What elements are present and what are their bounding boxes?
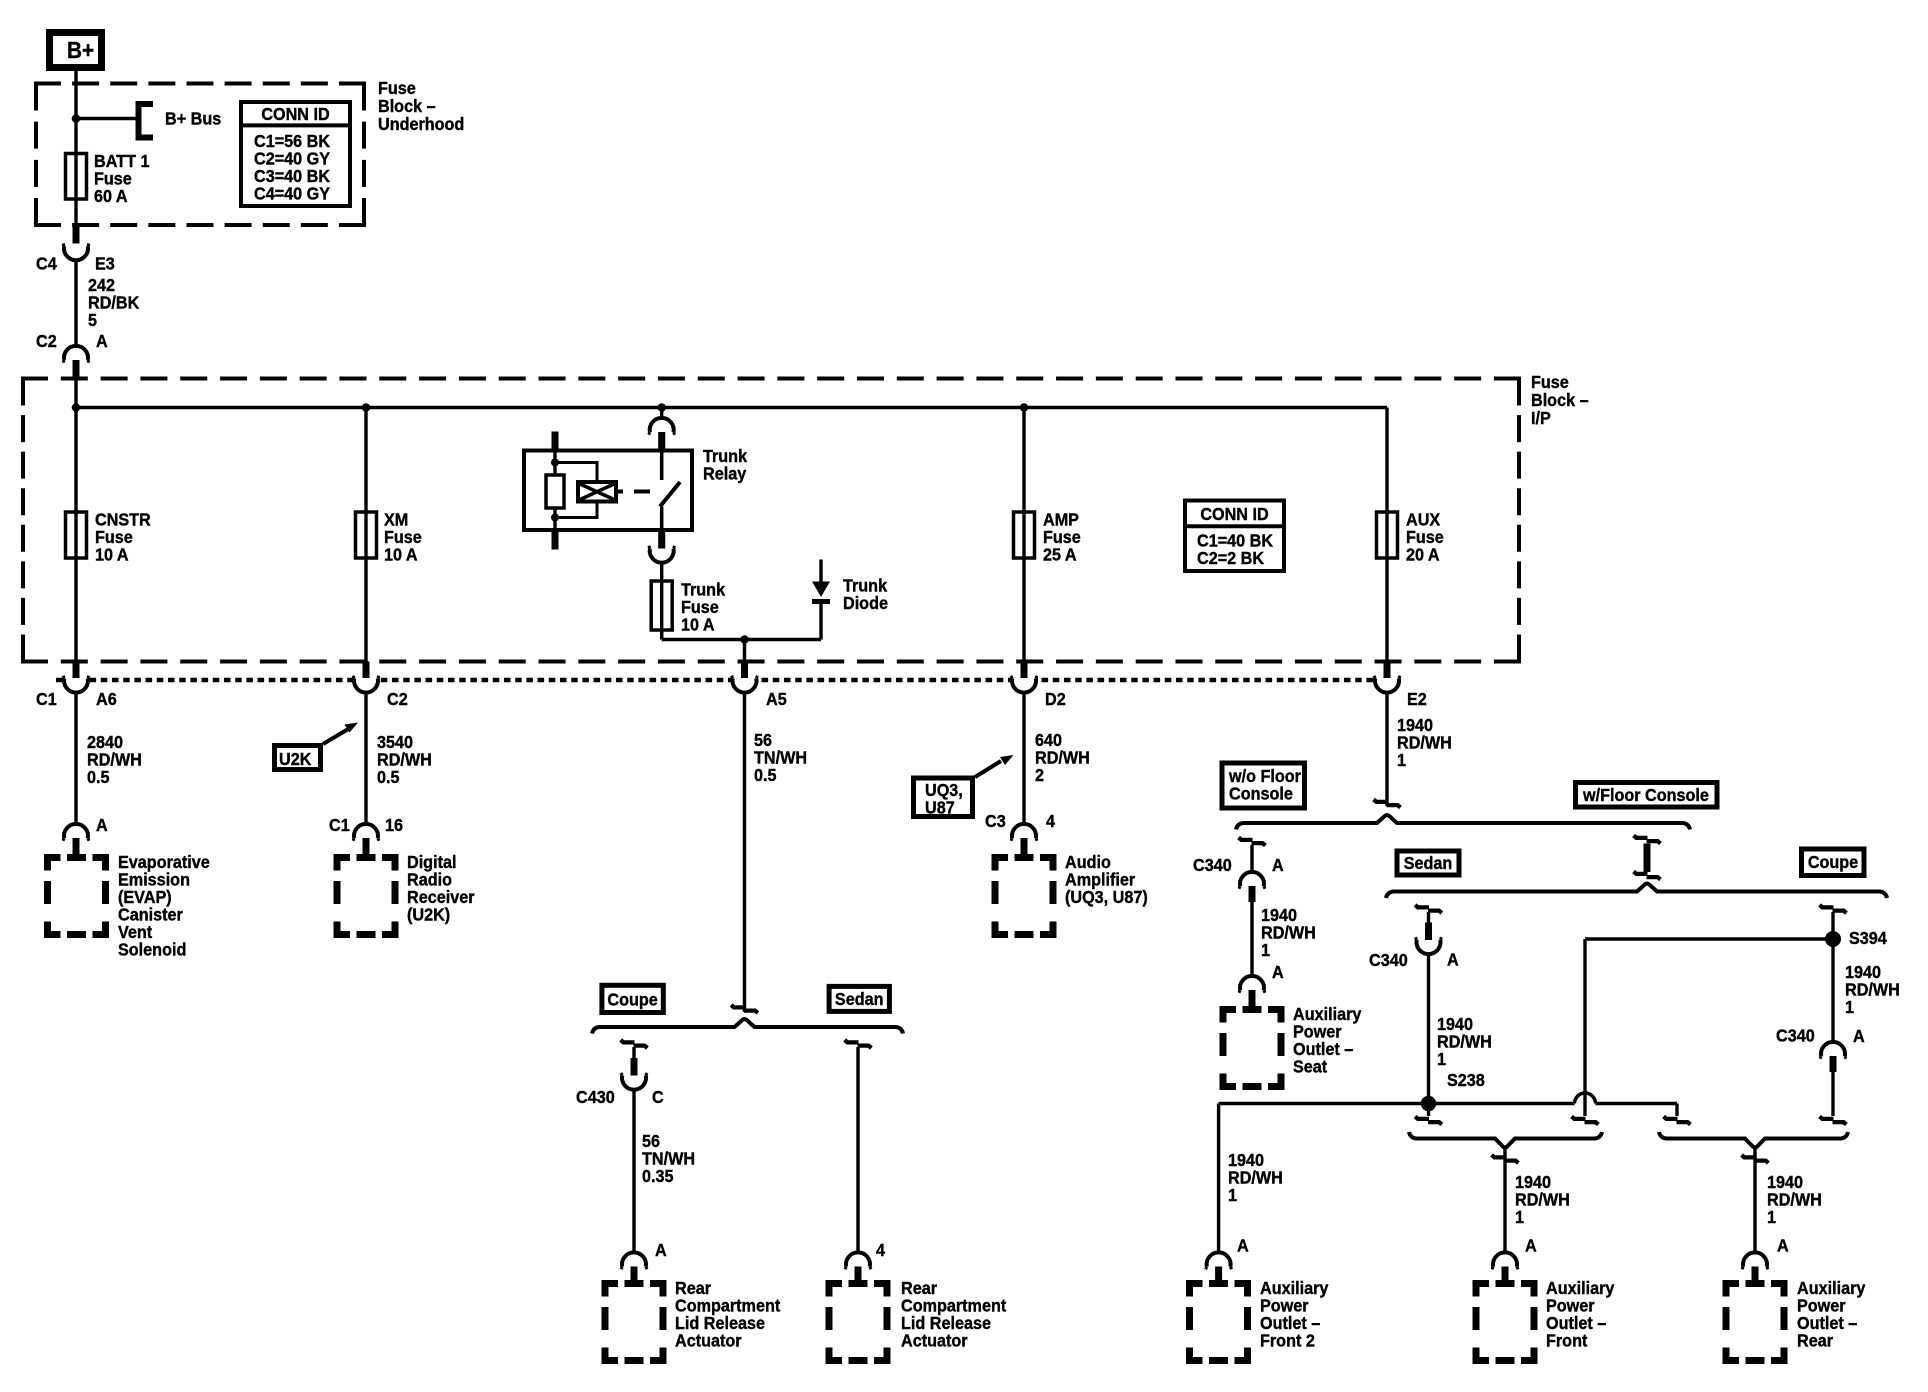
- wire 1940 RD/WH 1 (sedan): [1427, 954, 1430, 1104]
- B+ Bus terminal: [76, 117, 137, 120]
- svg-text:1: 1: [1437, 1049, 1446, 1069]
- svg-text:(U2K): (U2K): [407, 905, 450, 925]
- fuse AUX 20 A column: [1385, 408, 1388, 662]
- relay actuation dashed link: [616, 490, 623, 494]
- svg-text:D2: D2: [1045, 689, 1066, 709]
- wire 2840 RD/WH 0.5: [74, 693, 77, 825]
- svg-text:C340: C340: [1369, 950, 1408, 970]
- svg-text:C340: C340: [1193, 855, 1232, 875]
- wire trunk fuse to diode: [660, 630, 663, 640]
- connector A EVAP: [63, 828, 89, 844]
- coupe branch connector C430 C: [621, 1040, 648, 1048]
- E2 wire end tick: [1374, 800, 1401, 808]
- svg-text:A5: A5: [766, 689, 787, 709]
- svg-text:A: A: [655, 1240, 667, 1260]
- svg-text:C4: C4: [36, 254, 57, 274]
- svg-text:Fuse: Fuse: [1531, 372, 1569, 392]
- Coupe label box (floor console): [1802, 849, 1865, 876]
- svg-text:Diode: Diode: [843, 593, 888, 613]
- svg-text:Front: Front: [1546, 1331, 1588, 1351]
- relay output connector: [649, 543, 675, 559]
- svg-text:C4=40 GY: C4=40 GY: [254, 184, 331, 204]
- svg-text:Sedan: Sedan: [835, 989, 884, 1009]
- auxiliary power outlet seat box: [1223, 1010, 1281, 1087]
- svg-text:C3: C3: [985, 811, 1006, 831]
- svg-text:B+: B+: [67, 37, 94, 63]
- svg-text:Actuator: Actuator: [675, 1331, 742, 1351]
- svg-text:B+ Bus: B+ Bus: [165, 109, 221, 129]
- svg-text:10 A: 10 A: [95, 545, 129, 565]
- connector C2 (XM): [353, 673, 379, 689]
- Fuse Block - Underhood dashed box: [34, 82, 366, 86]
- digital radio receiver box: [337, 858, 395, 935]
- trunk diode: [819, 560, 822, 583]
- svg-text:Block –: Block –: [1531, 390, 1589, 410]
- U2K option box and arrow: [275, 746, 321, 770]
- svg-text:Underhood: Underhood: [378, 114, 464, 134]
- wire 1940 RD/WH 1 (rear): [1742, 1155, 1769, 1163]
- brace sedan coupe split: [1386, 884, 1887, 899]
- audio amplifier box: [995, 858, 1053, 935]
- svg-text:5: 5: [88, 310, 97, 330]
- svg-text:S238: S238: [1447, 1070, 1485, 1090]
- svg-text:A: A: [96, 815, 108, 835]
- svg-text:C: C: [652, 1087, 664, 1107]
- relay U box Trunk Relay: [524, 451, 692, 531]
- svg-text:C340: C340: [1776, 1026, 1815, 1046]
- svg-text:Rear: Rear: [1797, 1331, 1833, 1351]
- sedan branch wire to actuator: [845, 1040, 872, 1048]
- CONN ID table I/P: [1185, 501, 1284, 572]
- svg-text:Front 2: Front 2: [1260, 1331, 1315, 1351]
- UQ3 U87 option box and arrow: [914, 778, 973, 817]
- svg-text:1: 1: [1515, 1207, 1524, 1227]
- wire 1940 RD/WH 1 (front 2): [1217, 1104, 1220, 1253]
- bus wire inside I/P block: [74, 379, 77, 408]
- svg-text:1: 1: [1845, 997, 1854, 1017]
- svg-text:A: A: [1237, 1236, 1249, 1256]
- connector D2: [1011, 673, 1037, 689]
- w/o Floor Console label box: [1222, 763, 1305, 808]
- svg-text:2: 2: [1035, 765, 1044, 785]
- rear compartment lid release actuator box (sedan): [829, 1284, 887, 1361]
- junction dots on bus: [72, 403, 81, 412]
- wire 1940 RD/WH 1 (seat): [1250, 902, 1253, 976]
- svg-text:1: 1: [1397, 750, 1406, 770]
- svg-text:20 A: 20 A: [1406, 545, 1440, 565]
- junction dot A5 tap: [740, 635, 749, 644]
- svg-text:0.5: 0.5: [377, 767, 400, 787]
- I/P connector row dotted line: [56, 678, 1374, 683]
- floor console continuation double tick: [1634, 836, 1661, 844]
- wire 1940 RD/WH 1 (front): [1492, 1155, 1519, 1163]
- svg-text:C2: C2: [387, 689, 408, 709]
- svg-text:(UQ3, U87): (UQ3, U87): [1065, 887, 1148, 907]
- connector 4 lid release sedan: [845, 1257, 871, 1273]
- svg-text:1: 1: [1767, 1207, 1776, 1227]
- svg-text:0.5: 0.5: [754, 765, 777, 785]
- wire 1940 RD/WH 1 (E2): [1385, 693, 1388, 807]
- svg-text:A: A: [1853, 1026, 1865, 1046]
- svg-text:A6: A6: [96, 689, 117, 709]
- svg-text:16: 16: [385, 815, 403, 835]
- connector C4 E3: [63, 240, 89, 256]
- svg-text:CONN ID: CONN ID: [1200, 504, 1268, 524]
- wire B+ to fuse block: [74, 71, 77, 246]
- svg-text:0.5: 0.5: [87, 767, 110, 787]
- relay coil bracket wires: [555, 463, 597, 483]
- svg-text:E2: E2: [1407, 689, 1427, 709]
- relay switch: [660, 451, 664, 481]
- wire S394 to front brace: [1585, 937, 1833, 940]
- svg-text:0.35: 0.35: [642, 1166, 674, 1186]
- connector A5: [743, 640, 746, 664]
- EVAP canister vent solenoid box: [48, 858, 106, 935]
- svg-text:Relay: Relay: [703, 464, 747, 484]
- junction dot B+ bus tap: [72, 114, 81, 123]
- connector C1 16 digital radio: [353, 828, 379, 844]
- svg-text:Fuse: Fuse: [378, 78, 416, 98]
- brace coupe sedan split (trunk): [592, 1019, 903, 1034]
- svg-text:Sedan: Sedan: [1404, 853, 1453, 873]
- w/Floor Console label box: [1576, 783, 1718, 808]
- svg-text:U2K: U2K: [279, 749, 312, 769]
- svg-text:S394: S394: [1849, 928, 1887, 948]
- connector A front 2 outlet: [1206, 1257, 1232, 1273]
- fuse CNSTR 10 A column: [74, 408, 77, 662]
- connector A seat outlet: [1239, 980, 1265, 996]
- svg-text:U87: U87: [925, 798, 955, 818]
- auxiliary power outlet front box: [1476, 1284, 1534, 1361]
- B+ battery feed box: [50, 33, 102, 68]
- w/o floor console branch C340 A: [1239, 838, 1266, 846]
- svg-text:Solenoid: Solenoid: [118, 940, 186, 960]
- trunk relay feed connector: [660, 408, 663, 420]
- wire 640 RD/WH 2 (D2): [1022, 693, 1025, 825]
- svg-text:A: A: [96, 331, 108, 351]
- sedan branch connector C340 A: [1415, 905, 1442, 913]
- CONN ID table underhood: [241, 102, 350, 206]
- connector A lid release coupe: [621, 1257, 647, 1273]
- fuse Trunk 10 A: [660, 581, 663, 640]
- svg-text:C1: C1: [36, 689, 57, 709]
- wire 56 TN/WH 0.35: [632, 1090, 635, 1253]
- svg-text:C2: C2: [36, 331, 57, 351]
- connector C3 4 audio amp: [1011, 828, 1037, 844]
- A5 wire end tick: [731, 1005, 758, 1013]
- Fuse Block - I/P dashed box: [21, 377, 1521, 381]
- svg-text:A: A: [1272, 962, 1284, 982]
- svg-text:4: 4: [1046, 811, 1055, 831]
- svg-text:1: 1: [1228, 1185, 1237, 1205]
- relay coil pin stubs: [552, 432, 559, 451]
- svg-text:A: A: [1447, 950, 1459, 970]
- auxiliary power outlet rear box: [1726, 1284, 1784, 1361]
- svg-text:10 A: 10 A: [384, 545, 418, 565]
- svg-text:1: 1: [1261, 940, 1270, 960]
- connector E2: [1374, 673, 1400, 689]
- Sedan label box (trunk): [829, 986, 889, 1011]
- brace front outlet gather: [1409, 1132, 1602, 1148]
- wire 56 TN/WH 0.5 (A5): [743, 693, 746, 1013]
- svg-text:I/P: I/P: [1531, 408, 1551, 428]
- Coupe label box (trunk): [602, 985, 663, 1012]
- svg-text:C1: C1: [329, 815, 350, 835]
- wire 3540 RD/WH 0.5: [364, 693, 367, 825]
- Sedan label box (floor console): [1397, 851, 1459, 875]
- connector C2 A: [63, 350, 89, 366]
- svg-text:C430: C430: [576, 1087, 615, 1107]
- svg-text:E3: E3: [95, 254, 115, 274]
- svg-text:Seat: Seat: [1293, 1057, 1327, 1077]
- coupe branch wire and S394: [1820, 905, 1847, 913]
- connector A rear outlet: [1742, 1257, 1768, 1273]
- connector A front outlet: [1492, 1257, 1518, 1273]
- relay coil X box: [578, 482, 616, 502]
- brace w/o-w/ floor console split: [1236, 815, 1690, 830]
- svg-text:Actuator: Actuator: [901, 1331, 968, 1351]
- rear compartment lid release actuator box (coupe): [605, 1284, 663, 1361]
- svg-text:Coupe: Coupe: [1808, 852, 1858, 872]
- svg-text:A: A: [1525, 1236, 1537, 1256]
- svg-text:C2=2 BK: C2=2 BK: [1197, 548, 1265, 568]
- wire 242 RD/BK 5: [74, 260, 77, 346]
- fuse XM 10 A column: [364, 408, 367, 662]
- svg-text:A: A: [1777, 1236, 1789, 1256]
- svg-text:4: 4: [876, 1240, 885, 1260]
- S238 junction and horizontal wire: [1421, 1096, 1436, 1111]
- brace rear outlet gather: [1659, 1132, 1848, 1148]
- svg-text:60 A: 60 A: [94, 186, 128, 206]
- fuse AMP 25 A column: [1022, 408, 1025, 662]
- svg-text:Console: Console: [1229, 784, 1293, 804]
- svg-text:10 A: 10 A: [681, 615, 715, 635]
- svg-text:Coupe: Coupe: [607, 990, 657, 1010]
- svg-text:w/Floor Console: w/Floor Console: [1582, 785, 1709, 805]
- auxiliary power outlet front 2 box: [1190, 1284, 1248, 1361]
- fuse BATT 1 60 A: [66, 154, 87, 200]
- svg-text:25 A: 25 A: [1043, 545, 1077, 565]
- connector C1 A6: [63, 673, 89, 689]
- svg-text:CONN ID: CONN ID: [261, 104, 329, 124]
- relay coil wire and suppression resistor: [553, 451, 556, 532]
- svg-text:A: A: [1272, 855, 1284, 875]
- svg-text:Block –: Block –: [378, 96, 436, 116]
